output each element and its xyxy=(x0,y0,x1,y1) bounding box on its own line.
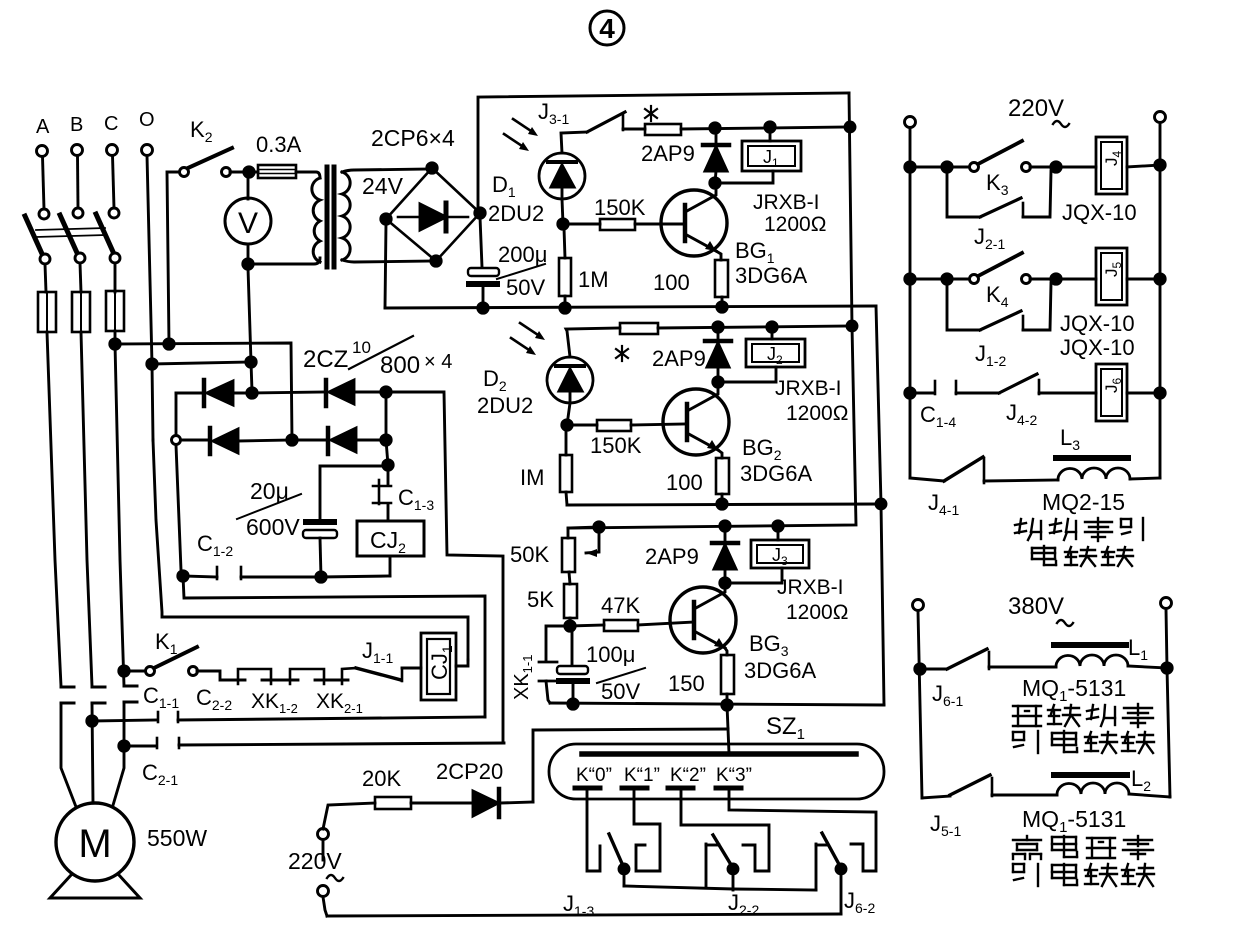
selector drum SZ1 capsule xyxy=(549,744,884,799)
contact J5-1 xyxy=(922,796,950,798)
fuse C xyxy=(106,291,124,331)
knife switch top contact A xyxy=(39,209,49,219)
node collector stage3 xyxy=(720,578,730,588)
node row2 center xyxy=(287,435,297,445)
svg-text:24V: 24V xyxy=(362,173,404,199)
stage3 bottom bus xyxy=(550,703,884,705)
wire to K1 left contact xyxy=(124,670,145,673)
diode D row2 left 2CZ xyxy=(208,428,213,454)
labels K0 K1 K2 K3 xyxy=(576,765,752,786)
transistor BG1 xyxy=(661,190,727,256)
wire B fuse down to main contact xyxy=(81,332,92,686)
svg-text:50V: 50V xyxy=(601,679,640,704)
svg-text:20K: 20K xyxy=(362,766,401,791)
switch K4 xyxy=(970,275,979,284)
selector group J1-3 xyxy=(587,790,600,871)
relay J1 box xyxy=(742,141,801,171)
wire row2 right down to C1-3 node xyxy=(386,440,388,465)
wire CJ2 bottom to bus xyxy=(389,556,392,576)
svg-text:MQ2-15: MQ2-15 xyxy=(1042,489,1125,515)
wire bridge right vertex down to 200u cap xyxy=(480,217,482,267)
wire A switch to fuse xyxy=(45,264,46,292)
resistor 100 stage1 xyxy=(715,260,728,297)
wire stage3 to selector plate xyxy=(727,705,728,729)
label liheqi qian xyxy=(1013,836,1153,859)
fuse B xyxy=(72,292,90,332)
svg-text:M: M xyxy=(78,822,111,866)
switch K3 xyxy=(970,163,979,172)
svg-text:V: V xyxy=(238,207,258,240)
bridge vertex dots xyxy=(427,163,437,173)
wire J2 bottom to collector node xyxy=(718,367,776,382)
fuse A xyxy=(38,292,56,332)
wire B terminal to knife switch xyxy=(76,156,79,209)
svg-text:150K: 150K xyxy=(590,433,642,458)
svg-text:A: A xyxy=(36,116,50,138)
diode D row2 right 2CZ xyxy=(326,428,331,454)
fuse 0.3A xyxy=(258,165,296,178)
asterisk mark xyxy=(645,106,657,121)
svg-text:380V: 380V xyxy=(1008,593,1064,620)
capacitor 20u 600V top solid plate xyxy=(303,519,337,525)
svg-text:600V: 600V xyxy=(246,514,300,540)
knife switch top contact C xyxy=(109,208,119,218)
svg-text:4: 4 xyxy=(599,13,615,44)
label jianqie qianyin xyxy=(1015,518,1143,541)
switch K1 left contact xyxy=(146,667,155,676)
photodiode D1 xyxy=(539,153,585,199)
transformer secondary winding xyxy=(342,172,350,260)
svg-text:MQ1-5131: MQ1-5131 xyxy=(1022,806,1126,836)
svg-text:150: 150 xyxy=(668,671,705,696)
svg-text:3DG6A: 3DG6A xyxy=(744,658,816,683)
knife blade A xyxy=(25,216,43,256)
svg-text:MQ1-5131: MQ1-5131 xyxy=(1022,675,1126,705)
svg-text:K“0”: K“0” xyxy=(576,765,612,786)
svg-text:JRXB-I: JRXB-I xyxy=(777,576,844,599)
svg-text:10: 10 xyxy=(352,338,371,357)
contact J2-1 branch xyxy=(947,171,980,217)
svg-text:2CP20: 2CP20 xyxy=(436,759,503,784)
svg-text:JQX-10: JQX-10 xyxy=(1060,335,1135,360)
row1 wire xyxy=(910,166,969,169)
node K2 branch on bus1 xyxy=(164,339,174,349)
stage3 top line xyxy=(568,527,599,538)
relay J3 box xyxy=(751,540,809,568)
right rail 380V xyxy=(1166,609,1170,797)
node collector stage2 xyxy=(713,377,723,387)
contact J1-2 branch xyxy=(947,283,980,330)
aux contact row1 from B phase xyxy=(92,720,157,721)
svg-text:JQX-10: JQX-10 xyxy=(1060,311,1135,336)
svg-text:2DU2: 2DU2 xyxy=(488,201,544,226)
node J1 top xyxy=(765,122,775,132)
node bus2 right xyxy=(246,357,256,367)
node base stage3 xyxy=(565,621,575,631)
terminal right 220V xyxy=(1155,112,1166,123)
svg-text:47K: 47K xyxy=(601,593,640,618)
contact J4-1 xyxy=(910,478,944,481)
CJ1 return wire into box xyxy=(456,660,468,666)
svg-text:JRXB-I: JRXB-I xyxy=(753,191,820,214)
row1 wire to right corner down xyxy=(386,392,503,743)
K2 branch corner wire xyxy=(167,172,178,344)
solenoid L3 MQ2-15 xyxy=(1058,468,1130,480)
row3 wire with contact C1-4 xyxy=(910,392,934,395)
aux contact row2 C2-1 from C phase xyxy=(124,745,156,748)
knife switch bottom contact A xyxy=(40,254,50,264)
bridge inner diode xyxy=(398,216,420,219)
resistor star stage1 xyxy=(645,124,681,135)
svg-text:50K: 50K xyxy=(510,542,549,567)
svg-text:1200Ω: 1200Ω xyxy=(764,213,826,236)
contact J6-1 xyxy=(920,668,947,671)
wire V node to primary bottom xyxy=(248,258,320,264)
resistor 1M stage1 xyxy=(564,228,565,258)
capacitor 20u 600V bottom hollow plate xyxy=(303,530,337,538)
knife switch top contact B xyxy=(73,208,83,218)
resistor star stage2 xyxy=(620,323,658,334)
diode D row1 left 2CZ xyxy=(202,380,207,406)
node row2 right xyxy=(381,435,391,445)
relay J2 box xyxy=(746,339,805,367)
svg-text:3DG6A: 3DG6A xyxy=(740,461,812,486)
wire to 20u cap top xyxy=(320,466,388,519)
nodes on L1 bus xyxy=(478,303,488,313)
node diode top stage2 xyxy=(713,322,723,332)
svg-text:100: 100 xyxy=(653,270,690,295)
C1-2 bus wire xyxy=(183,576,217,577)
pad K1 xyxy=(622,786,647,791)
node row1 right xyxy=(381,387,391,397)
terminal C xyxy=(107,145,118,156)
wire C fuse down to main contact xyxy=(115,331,124,686)
motor M 550W xyxy=(56,803,134,881)
wire J1 bottom to collector node xyxy=(715,171,773,183)
solenoid L2 xyxy=(1057,783,1129,795)
row2 left open junction xyxy=(172,436,181,445)
bridge rectifier 2CP6 diamond xyxy=(386,168,480,261)
switch K1 blade xyxy=(154,647,197,668)
node bus2 on O line xyxy=(147,359,157,369)
switch J3-1 wire from D1 xyxy=(561,132,587,153)
resistor 150K stage1 xyxy=(563,223,600,226)
svg-text:JQX-10: JQX-10 xyxy=(1062,200,1137,225)
node base stage1 xyxy=(558,219,568,229)
switch K2 blade xyxy=(188,148,232,168)
svg-text:× 4: × 4 xyxy=(424,351,452,373)
capacitor 200u 50V xyxy=(468,268,499,276)
svg-text:50V: 50V xyxy=(506,275,545,300)
svg-text:B: B xyxy=(70,114,83,136)
label 20u / 600V xyxy=(246,478,300,540)
resistor 100 stage2 xyxy=(716,458,729,494)
svg-text:1200Ω: 1200Ω xyxy=(786,402,848,425)
svg-text:2DU2: 2DU2 xyxy=(477,393,533,418)
relay J6 box xyxy=(1096,364,1127,421)
label dianciti xyxy=(1032,546,1133,566)
motor stand xyxy=(50,874,140,898)
wire 220V to 20K xyxy=(323,803,375,829)
label 2CZ 10/800 x4 xyxy=(303,338,452,379)
wire secondary bottom to bridge xyxy=(342,260,435,262)
wire D2 top to row xyxy=(566,328,620,357)
switch J1-1 blade xyxy=(356,668,401,680)
selector group J2-2 xyxy=(705,844,708,888)
transistor BG2 xyxy=(663,389,729,455)
resistor 150K stage2 xyxy=(567,424,597,427)
node collector stage1 xyxy=(710,178,720,188)
svg-text:2CZ: 2CZ xyxy=(303,346,348,373)
svg-text:JRXB-I: JRXB-I xyxy=(775,377,842,400)
220V source terminals xyxy=(318,829,329,840)
knife blade B xyxy=(60,215,78,255)
contact XK2-1 bridge xyxy=(342,668,356,684)
node V bottom xyxy=(243,259,253,269)
rectifier row1 wire xyxy=(176,392,203,395)
rail V2 xyxy=(876,306,884,705)
left rail xyxy=(909,128,912,478)
diode D row1 right 2CZ xyxy=(324,380,329,406)
wire A terminal to knife switch xyxy=(43,157,45,210)
wire D1 to base node xyxy=(562,199,563,224)
relay J4 box xyxy=(1096,137,1127,194)
aux row2 wire right xyxy=(179,743,504,745)
selector group J6-2 xyxy=(815,844,818,890)
svg-text:2AP9: 2AP9 xyxy=(645,544,699,569)
contact XK1-1 bypass xyxy=(546,626,570,661)
svg-text:550W: 550W xyxy=(147,825,207,851)
terminal A xyxy=(37,146,48,157)
stage2 bottom line xyxy=(567,504,881,505)
bottom return wire to 220V xyxy=(327,914,841,916)
label yin dianciti 2 xyxy=(1013,864,1154,886)
wire B switch to fuse xyxy=(80,263,81,292)
svg-text:3DG6A: 3DG6A xyxy=(735,263,807,288)
page number circled 4 xyxy=(590,11,624,45)
node base stage2 xyxy=(562,420,572,430)
main contactor contact C1-1 phase A xyxy=(61,686,74,689)
pad K3 xyxy=(716,786,741,791)
relay coil CJ2 box xyxy=(357,521,424,556)
right rail xyxy=(1159,123,1162,478)
node C1-2 bus left xyxy=(178,571,188,581)
light arrows D2 xyxy=(511,323,545,355)
diode 2AP9 stage2 xyxy=(717,331,720,339)
svg-text:O: O xyxy=(139,109,155,131)
svg-text:1M: 1M xyxy=(578,267,609,292)
transformer core xyxy=(325,167,330,267)
svg-text:150K: 150K xyxy=(594,195,646,220)
pad K2 xyxy=(668,786,693,791)
terminal left 380V xyxy=(913,600,924,611)
wire bridge left vertex down to L1 bus xyxy=(385,223,386,308)
wire K2 to fuse node xyxy=(230,171,258,174)
transistor BG3 xyxy=(670,587,736,653)
light arrows D1 xyxy=(504,119,538,151)
svg-text:2CP6×4: 2CP6×4 xyxy=(371,125,455,151)
wire to star resistor xyxy=(623,128,645,131)
node diode top stage1 xyxy=(710,123,720,133)
wire secondary top to bridge xyxy=(342,169,431,172)
node C aux row xyxy=(119,741,129,751)
wire J3 bottom to collector node xyxy=(725,568,782,583)
contact J4-2 xyxy=(999,374,1037,393)
svg-text:C: C xyxy=(104,113,118,135)
loop2 wire from C1-2 bus left down around contact row1 xyxy=(183,576,485,717)
svg-text:K“3”: K“3” xyxy=(716,765,752,786)
svg-text:220V: 220V xyxy=(288,848,342,874)
wire C terminal to knife switch xyxy=(113,156,115,209)
switch K1 right contact xyxy=(189,667,198,676)
asterisk mark stage2 xyxy=(616,346,628,361)
resistor 5K xyxy=(569,572,570,584)
node above cap wire xyxy=(383,460,393,470)
node J2 top xyxy=(767,322,777,332)
resistor 150 xyxy=(721,655,734,694)
wire V node down to bus2 and rectifier row1 xyxy=(248,268,252,391)
contact C1-3 xyxy=(387,469,390,484)
svg-text:K“2”: K“2” xyxy=(670,765,706,786)
voltmeter V xyxy=(247,176,250,199)
link wire selector commons xyxy=(624,886,816,890)
wire A below contact to motor xyxy=(61,703,78,812)
rectifier left edge down to row2 xyxy=(175,393,178,440)
bus1 from C fuse to rectifier xyxy=(115,343,292,440)
wire fuse to transformer primary xyxy=(296,172,320,178)
wire K1 to contact chain xyxy=(197,671,245,680)
node V meter top xyxy=(244,167,254,177)
wire J1-1 to CJ1 xyxy=(402,667,421,670)
svg-text:5K: 5K xyxy=(527,587,554,612)
wire B below contact to motor xyxy=(92,703,93,803)
knife switch bottom contact B xyxy=(75,253,85,263)
selector plate thick bar xyxy=(582,751,856,757)
node C fuse to bus1 xyxy=(110,339,120,349)
aux row1 wire right xyxy=(178,717,485,720)
capacitor 100u 50V xyxy=(571,630,574,665)
node V1 rail stage2 xyxy=(847,321,857,331)
contact XK1-2 bridge xyxy=(290,669,324,684)
node V1 rail stage1 xyxy=(845,122,855,132)
relay coil CJ1 box double border xyxy=(421,633,456,700)
row1 wire to second diode xyxy=(252,392,326,393)
terminal B xyxy=(72,145,83,156)
terminal right 380V xyxy=(1161,598,1172,609)
svg-text:1200Ω: 1200Ω xyxy=(786,601,848,624)
knife switch bottom contact C xyxy=(110,253,120,263)
wire C switch to fuse xyxy=(114,263,117,292)
left rail 380V xyxy=(918,611,922,798)
switch J3-1 blade xyxy=(587,112,625,132)
svg-text:2AP9: 2AP9 xyxy=(652,346,706,371)
diode 2CP20 xyxy=(473,791,498,816)
diode 2AP9 stage3 xyxy=(724,527,727,541)
resistor 47K xyxy=(570,625,604,626)
relay J5 box xyxy=(1096,248,1127,305)
vertical joining row1 and row2 right nodes xyxy=(385,392,388,440)
node 20u bottom on bus xyxy=(316,572,326,582)
bus L1 xyxy=(385,306,876,308)
main contactor contact C1-1 phase C xyxy=(124,685,137,688)
row2 wire xyxy=(181,439,209,442)
contact C1-2 ticks xyxy=(216,567,219,579)
label yin dianciti xyxy=(1013,731,1154,753)
wire V bottom to node xyxy=(247,244,250,264)
stage1 top frame xyxy=(478,93,849,214)
node row1 under V line xyxy=(247,388,257,398)
row2 wire xyxy=(910,278,969,281)
knife blade C xyxy=(96,214,114,254)
terminal left 220V xyxy=(905,117,916,128)
resistor 20K xyxy=(375,797,411,809)
node B aux row xyxy=(87,716,97,726)
svg-text:0.3A: 0.3A xyxy=(256,132,302,157)
bus2 from O line to V line xyxy=(152,362,251,364)
wire from 2CP20 up and over xyxy=(533,729,728,802)
O line continues down to CJ1 return loop xyxy=(153,440,468,660)
svg-text:220V: 220V xyxy=(1008,95,1064,122)
wire C below contact to motor xyxy=(111,702,124,812)
rail V1 xyxy=(568,93,856,528)
knife switch tie bar (double line) xyxy=(36,228,105,230)
pad K0 xyxy=(575,786,600,791)
resistor 1M stage2 xyxy=(565,429,568,455)
terminal O xyxy=(142,145,153,156)
main contactor contact C1-1 phase B xyxy=(92,686,105,689)
diode 2AP9 stage1 xyxy=(715,132,718,143)
svg-text:100: 100 xyxy=(666,470,703,495)
svg-text:100μ: 100μ xyxy=(586,642,635,667)
contact C2-2 bridge xyxy=(238,669,271,684)
svg-text:200μ: 200μ xyxy=(498,242,547,267)
label jixieshou qian xyxy=(1013,704,1153,727)
svg-text:IM: IM xyxy=(520,465,544,490)
potentiometer 50K xyxy=(562,538,575,572)
wire A fuse down to main contact xyxy=(47,332,61,686)
svg-text:800: 800 xyxy=(380,352,420,379)
switch K2 left contact xyxy=(180,168,189,177)
switch K2 right contact xyxy=(222,168,231,177)
O line down xyxy=(147,156,153,441)
solenoid L1 xyxy=(1056,655,1128,667)
svg-text:K“1”: K“1” xyxy=(624,765,660,786)
wire rectifier left edge down to C1-2 bus xyxy=(176,445,183,576)
wire D2 to base node xyxy=(567,403,570,425)
transformer primary winding xyxy=(312,178,320,262)
node K1 on C phase xyxy=(119,666,129,676)
wire 20u bottom to C1-2 bus xyxy=(320,538,321,577)
photodiode D2 xyxy=(547,357,593,403)
svg-text:2AP9: 2AP9 xyxy=(641,141,695,166)
